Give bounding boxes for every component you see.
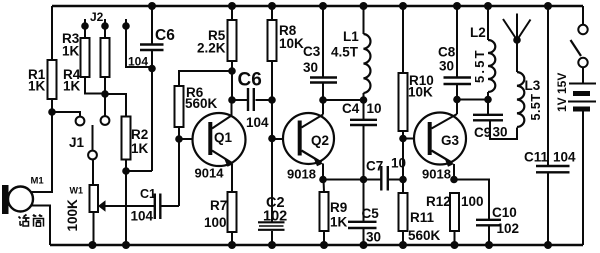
svg-text:100: 100 (204, 215, 227, 230)
svg-text:C10: C10 (492, 205, 517, 220)
svg-text:9018: 9018 (287, 167, 316, 182)
svg-text:C11: C11 (524, 150, 549, 165)
svg-text:L3: L3 (525, 78, 541, 93)
svg-text:10: 10 (367, 101, 382, 116)
svg-text:2.2K: 2.2K (197, 41, 226, 56)
svg-text:104: 104 (246, 115, 269, 130)
svg-text:L1: L1 (343, 29, 359, 44)
svg-text:102: 102 (497, 221, 520, 236)
svg-text:10K: 10K (279, 36, 304, 51)
svg-text:5.5T: 5.5T (472, 48, 487, 83)
svg-text:J2: J2 (90, 10, 104, 24)
svg-text:104: 104 (131, 209, 154, 224)
svg-text:C7: C7 (366, 159, 383, 174)
svg-text:9018: 9018 (422, 167, 451, 182)
svg-text:W1: W1 (70, 186, 84, 196)
svg-text:1K: 1K (28, 79, 46, 94)
svg-text:R2: R2 (131, 127, 148, 142)
svg-text:C8: C8 (438, 45, 456, 60)
svg-text:M1: M1 (31, 176, 45, 187)
svg-text:5.5T: 5.5T (529, 93, 543, 120)
svg-text:560K: 560K (408, 228, 441, 243)
svg-text:J1: J1 (69, 135, 85, 150)
svg-text:30: 30 (303, 60, 318, 75)
svg-text:R12: R12 (426, 194, 451, 209)
svg-text:104: 104 (128, 55, 148, 69)
svg-text:C5: C5 (362, 206, 380, 221)
svg-text:G3: G3 (441, 133, 460, 148)
svg-text:100: 100 (461, 194, 484, 209)
svg-text:100K: 100K (65, 199, 80, 232)
svg-text:1K: 1K (62, 44, 80, 59)
svg-text:30: 30 (366, 230, 381, 245)
svg-text:30: 30 (493, 125, 508, 140)
svg-text:R11: R11 (410, 210, 435, 225)
svg-text:C1: C1 (140, 187, 156, 201)
svg-text:4.5T: 4.5T (331, 45, 359, 60)
svg-text:R9: R9 (330, 200, 347, 215)
svg-text:104: 104 (553, 150, 576, 165)
svg-text:C9: C9 (474, 125, 491, 140)
svg-text:10: 10 (391, 156, 406, 171)
svg-text:102: 102 (263, 209, 287, 225)
svg-text:1V 15V: 1V 15V (555, 73, 569, 112)
svg-text:Q2: Q2 (311, 133, 329, 148)
svg-text:560K: 560K (185, 96, 218, 111)
svg-text:R7: R7 (210, 198, 227, 213)
svg-text:C6: C6 (238, 70, 262, 91)
svg-text:10K: 10K (408, 85, 433, 100)
svg-text:C3: C3 (303, 44, 321, 59)
svg-text:C6: C6 (155, 27, 175, 44)
svg-text:L2: L2 (470, 25, 486, 40)
svg-text:1K: 1K (131, 141, 149, 156)
svg-text:C4: C4 (342, 101, 360, 116)
svg-text:1K: 1K (63, 79, 81, 94)
svg-text:30: 30 (439, 59, 454, 74)
svg-text:1K: 1K (330, 215, 348, 230)
svg-text:9014: 9014 (195, 166, 225, 181)
svg-text:Q1: Q1 (214, 130, 233, 145)
